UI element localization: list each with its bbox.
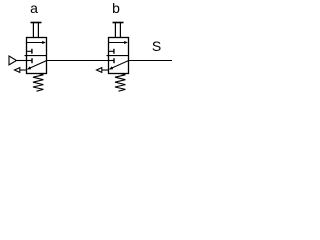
supply source triangle xyxy=(9,56,17,65)
valve b cell divider xyxy=(107,55,129,57)
valve a blocked port T2 (supply blocked at rest) xyxy=(27,58,33,63)
valve a flow arrow (actuated position) xyxy=(27,41,46,44)
signal line S xyxy=(129,60,173,62)
valve b blocked port T2 (input blocked at rest) xyxy=(109,58,115,63)
valve a body xyxy=(27,38,47,74)
supply line to valve a xyxy=(17,60,27,62)
spring return a xyxy=(33,74,43,92)
valve b diagonal flow path (rest position) xyxy=(109,61,129,70)
valve b blocked port T1 xyxy=(109,49,114,54)
spring return b xyxy=(115,74,125,92)
valve b flow arrow (actuated position) xyxy=(109,41,128,44)
wire valve a output to valve b supply xyxy=(47,60,109,62)
exhaust triangle valve a xyxy=(15,68,20,73)
svg-text:a: a xyxy=(30,0,38,16)
svg-text:S: S xyxy=(152,38,161,54)
svg-text:b: b xyxy=(112,0,120,16)
plunger actuator b xyxy=(113,23,124,38)
exhaust triangle valve b xyxy=(97,68,102,73)
plunger actuator a xyxy=(31,23,42,38)
exhaust line valve b xyxy=(102,69,109,71)
exhaust line valve a xyxy=(20,69,27,71)
valve b body xyxy=(109,38,129,74)
valve a diagonal flow path (rest position) xyxy=(27,61,47,70)
valve a cell divider xyxy=(25,55,47,57)
valve a blocked port T1 xyxy=(27,49,32,54)
background xyxy=(0,0,172,98)
